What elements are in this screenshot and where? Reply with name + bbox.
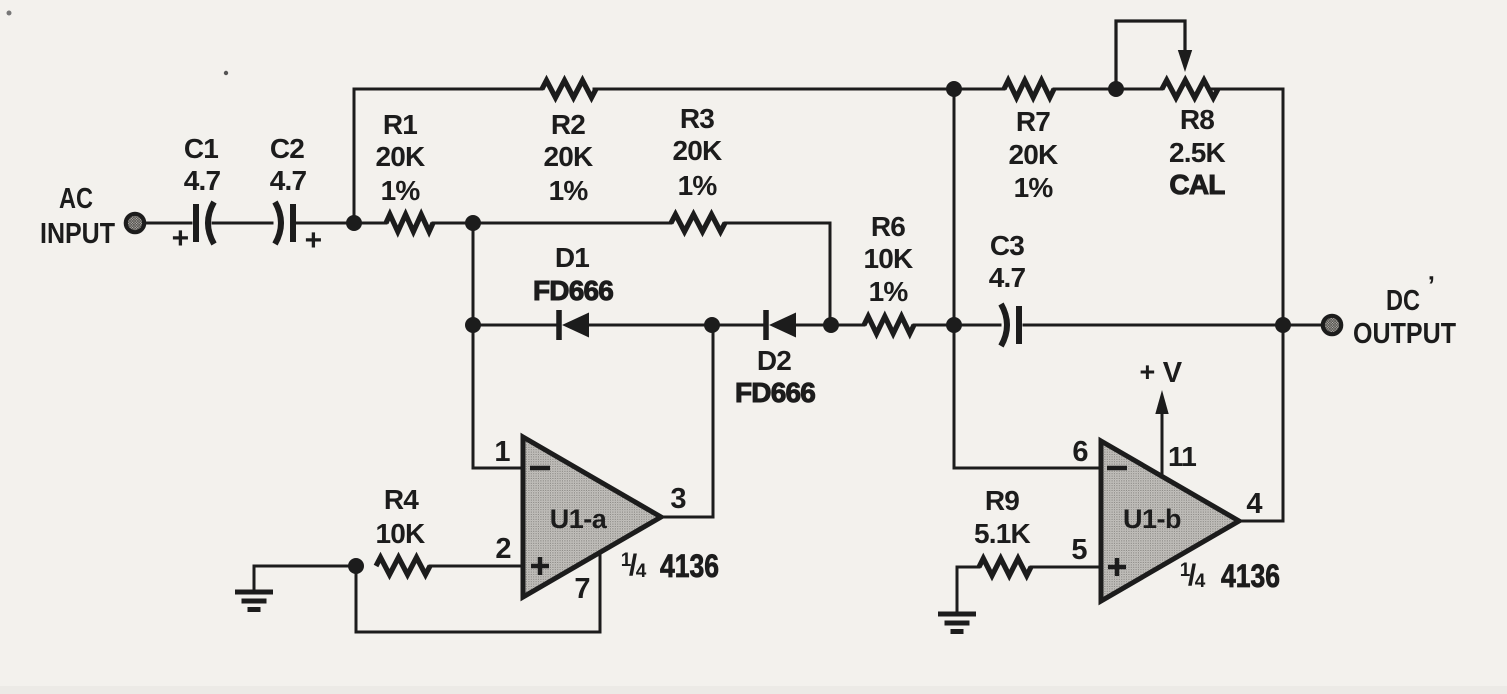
svg-text:4.7: 4.7 [184, 165, 221, 196]
svg-text:5: 5 [1071, 534, 1087, 566]
svg-text:4: 4 [1195, 571, 1206, 592]
svg-text:R2: R2 [551, 109, 585, 140]
svg-text:DC: DC [1386, 285, 1420, 317]
svg-text:+: + [172, 222, 189, 255]
svg-text:+: + [1140, 357, 1155, 387]
svg-text:FD666: FD666 [735, 377, 815, 408]
svg-text:R3: R3 [680, 103, 714, 134]
svg-text:D2: D2 [757, 345, 791, 376]
svg-text:5.1K: 5.1K [974, 518, 1031, 549]
svg-text:10K: 10K [376, 518, 426, 549]
svg-text:U1-a: U1-a [550, 504, 608, 534]
svg-text:1%: 1% [1014, 172, 1054, 203]
svg-text:4.7: 4.7 [270, 165, 307, 196]
svg-text:4: 4 [636, 561, 647, 582]
svg-text:20K: 20K [1009, 139, 1059, 170]
svg-text:C3: C3 [990, 230, 1024, 261]
svg-text:C1: C1 [184, 133, 218, 164]
svg-text:OUTPUT: OUTPUT [1353, 318, 1456, 350]
svg-text:10K: 10K [864, 243, 914, 274]
svg-text:CAL: CAL [1169, 169, 1225, 200]
svg-text:20K: 20K [673, 135, 723, 166]
svg-text:4136: 4136 [1221, 558, 1280, 594]
svg-text:6: 6 [1072, 436, 1088, 468]
svg-text:11: 11 [1168, 441, 1196, 472]
svg-text:1%: 1% [869, 276, 909, 307]
svg-text:R6: R6 [871, 211, 905, 242]
svg-text:R4: R4 [384, 484, 419, 515]
svg-text:3: 3 [670, 483, 686, 515]
svg-text:INPUT: INPUT [40, 218, 115, 250]
svg-text:ʼ: ʼ [1428, 270, 1434, 300]
svg-text:4: 4 [1246, 488, 1262, 520]
svg-text:2.5K: 2.5K [1169, 137, 1226, 168]
svg-text:FD666: FD666 [533, 275, 613, 306]
svg-text:4.7: 4.7 [989, 262, 1026, 293]
svg-text:1%: 1% [549, 175, 589, 206]
svg-text:4136: 4136 [660, 548, 719, 584]
svg-text:20K: 20K [376, 141, 426, 172]
svg-text:1: 1 [494, 436, 510, 468]
svg-text:U1-b: U1-b [1123, 504, 1181, 534]
svg-text:+: + [305, 224, 322, 257]
svg-text:R9: R9 [985, 485, 1019, 516]
svg-text:R1: R1 [383, 109, 417, 140]
svg-text:R7: R7 [1016, 106, 1050, 137]
svg-text:1%: 1% [381, 175, 421, 206]
svg-text:2: 2 [495, 533, 510, 565]
svg-text:1%: 1% [678, 170, 718, 201]
svg-text:V: V [1163, 357, 1183, 389]
svg-text:20K: 20K [544, 141, 594, 172]
svg-text:7: 7 [574, 573, 589, 605]
svg-text:AC: AC [59, 183, 93, 215]
svg-text:D1: D1 [555, 242, 589, 273]
svg-text:R8: R8 [1180, 104, 1214, 135]
svg-text:C2: C2 [270, 133, 304, 164]
